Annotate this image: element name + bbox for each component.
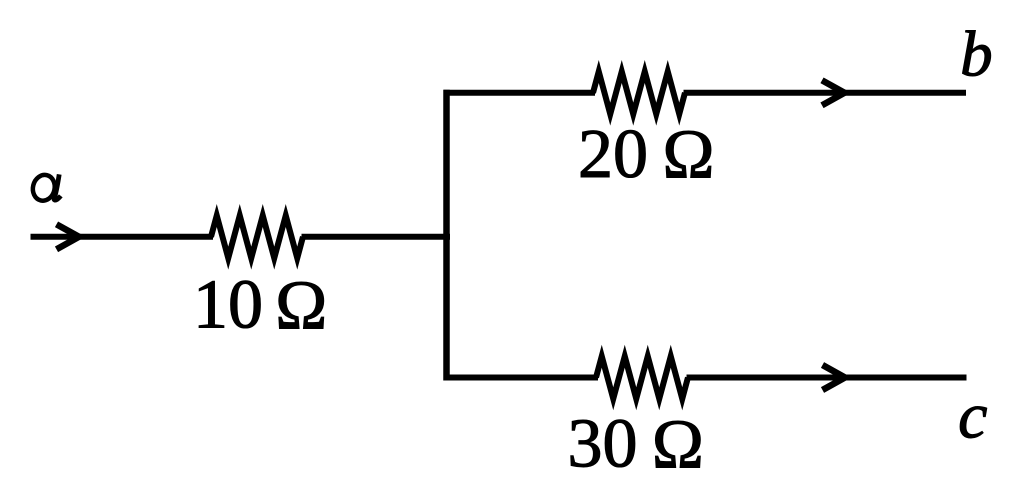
svg-text:20: 20 (578, 116, 648, 193)
svg-text:Ω: Ω (662, 117, 714, 194)
wire: vertical junction bus (443, 90, 450, 381)
arrowhead: current arrow on bottom branch toward c (823, 365, 846, 390)
wire: junction to R3 (bottom branch left) (444, 375, 599, 381)
svg-text:c: c (958, 380, 987, 453)
svg-text:Ω: Ω (275, 267, 327, 344)
wire: junction to R2 (top branch left) (444, 90, 596, 96)
wire: terminal a lead (left horizontal) (31, 234, 214, 240)
node a label (italic single-storey a, drawn) (30, 173, 61, 203)
resistor R2 (20 ohm) zigzag (593, 72, 685, 115)
svg-text:b: b (960, 19, 993, 91)
svg-text:Ω: Ω (652, 407, 704, 484)
resistor R3 (30 ohm) zigzag (596, 356, 688, 399)
arrowhead: current arrow on top branch toward b (822, 80, 845, 105)
resistor R1 (10 ohm) zigzag (211, 216, 303, 259)
wire: R3 to terminal c (687, 375, 967, 381)
wire: R2 to terminal b (684, 90, 967, 96)
arrowhead: current arrow on terminal a wire (57, 224, 80, 249)
svg-text:30: 30 (568, 406, 638, 483)
wire: R1 to junction node (302, 234, 451, 240)
svg-text:10: 10 (193, 266, 263, 343)
